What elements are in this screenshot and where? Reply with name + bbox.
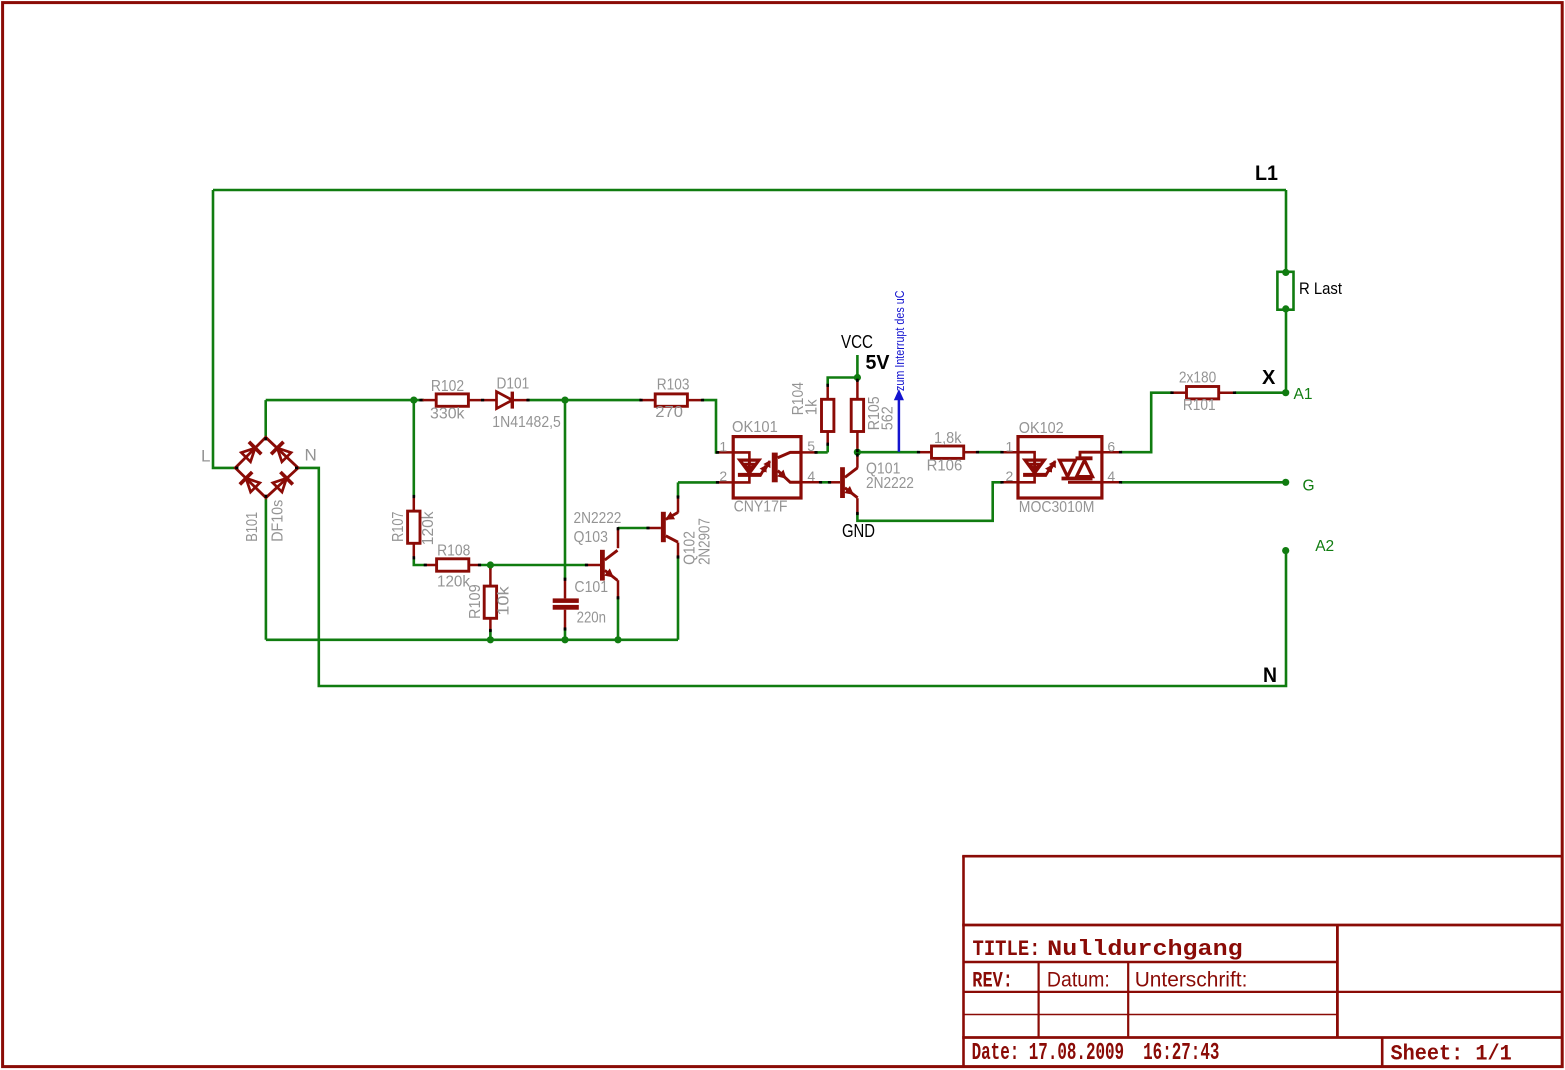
- wire R101 to node X/A1: [1235, 391, 1286, 394]
- wire R Last to node X/A1: [1285, 309, 1288, 393]
- terminal dot A1: [1282, 389, 1289, 396]
- wire R103 to OK101 pin1: [702, 400, 717, 452]
- svg-text:G: G: [1303, 478, 1315, 495]
- resistor R107: [408, 511, 420, 543]
- capacitor C101: [553, 598, 579, 609]
- svg-text:2N2222: 2N2222: [866, 475, 914, 492]
- wire R108 to Q103 base: [480, 564, 587, 567]
- svg-text:CNY17F: CNY17F: [734, 498, 788, 515]
- svg-text:Date: 17.08.2009 16:27:43: Date: 17.08.2009 16:27:43: [972, 1040, 1220, 1067]
- junction dot R Last bottom: [1282, 305, 1289, 312]
- pin stub OK101 pin4: [801, 481, 822, 484]
- pin stub R106 right: [963, 451, 979, 454]
- pin stub R105 bottom: [856, 431, 859, 451]
- pin stub C101 top: [564, 579, 567, 599]
- wire junction to R109: [489, 565, 492, 570]
- wire Q102 emitter to OK101 pin2: [678, 481, 716, 484]
- svg-text:R103: R103: [657, 377, 690, 394]
- OK101 phototransistor: [772, 452, 801, 482]
- bridge diode top-right (N to +): [271, 442, 291, 462]
- svg-text:2N2222: 2N2222: [574, 510, 622, 527]
- pin stub Q103 base: [586, 564, 601, 567]
- svg-text:1: 1: [1006, 439, 1014, 455]
- bridge rectifier B101 outline: [235, 437, 298, 497]
- transistor Q102 2N2907: [661, 512, 678, 542]
- wire Q102 emitter up: [677, 482, 680, 497]
- svg-text:270: 270: [655, 404, 683, 421]
- OK101 LED cathode wiring: [733, 475, 749, 483]
- junction node R109/bottom rail: [487, 636, 494, 643]
- pin stub OK101 pin2: [716, 481, 733, 484]
- pin stub OK102 pin2: [1001, 481, 1018, 484]
- pin stub R101 right: [1219, 391, 1236, 394]
- svg-text:5V: 5V: [866, 352, 891, 374]
- wire node to R106: [857, 451, 918, 454]
- svg-text:R106: R106: [927, 458, 963, 475]
- pin stub OK102 pin6: [1102, 451, 1122, 454]
- bridge diode bottom-left (- to L): [240, 472, 260, 492]
- svg-text:120k: 120k: [420, 511, 437, 545]
- wire junction down to C101: [564, 400, 567, 579]
- svg-text:L: L: [201, 446, 210, 465]
- terminal dot A2: [1282, 547, 1289, 554]
- svg-text:R109: R109: [467, 584, 484, 619]
- svg-text:Q103: Q103: [574, 529, 608, 546]
- pin stub R108 right: [468, 564, 480, 567]
- junction node at R102/R107: [410, 397, 417, 404]
- wire R104 bottom to pin5 net: [826, 444, 829, 452]
- svg-text:VCC: VCC: [841, 332, 873, 352]
- junction node Q103 emitter/bottom rail: [614, 636, 621, 643]
- pin stub R103 right: [687, 399, 703, 402]
- svg-text:330k: 330k: [430, 406, 465, 423]
- svg-text:N: N: [305, 446, 317, 465]
- OK102 internal triac: [1060, 452, 1102, 482]
- pin stub R103 left: [640, 399, 656, 402]
- resistor R101: [1187, 387, 1219, 399]
- svg-text:10k: 10k: [496, 586, 513, 616]
- svg-text:L1: L1: [1255, 162, 1278, 185]
- resistor R108: [437, 559, 469, 571]
- pin stub OK101 pin5: [801, 451, 817, 454]
- diode D101: [497, 392, 513, 409]
- pin stub OK101 pin1: [716, 451, 733, 454]
- wire VCC stub to R104/R105 junction: [828, 355, 858, 386]
- bridge diode bottom-right (- to N): [273, 472, 293, 492]
- wire L1 down to R Last: [1285, 190, 1288, 272]
- wire R107 to R108: [414, 558, 426, 566]
- svg-text:OK102: OK102: [1019, 420, 1064, 437]
- pin stub C101 bottom: [564, 610, 567, 630]
- pin stub Q103 emitter: [617, 580, 620, 598]
- svg-text:B101: B101: [244, 512, 261, 542]
- svg-text:A1: A1: [1294, 386, 1313, 403]
- svg-text:4: 4: [1107, 468, 1115, 484]
- pin stub OK102 pin1: [1001, 451, 1018, 454]
- wire net L1 top rail: [213, 189, 1286, 192]
- svg-text:220n: 220n: [577, 609, 606, 626]
- wire GND: Q101 emitter to OK102 pin2: [857, 482, 1002, 521]
- svg-text:1N41482,5: 1N41482,5: [492, 414, 561, 431]
- svg-text:R102: R102: [431, 378, 464, 395]
- svg-text:MOC3010M: MOC3010M: [1019, 499, 1095, 516]
- optocoupler OK101 box: [733, 437, 801, 498]
- svg-text:A2: A2: [1315, 538, 1334, 555]
- resistor R106: [932, 446, 964, 458]
- resistor R105: [851, 399, 863, 431]
- svg-text:2: 2: [719, 468, 727, 484]
- OK102 light coupling arrows: [1045, 461, 1055, 476]
- OK101 internal LED: [738, 460, 761, 475]
- junction node R108/R109: [487, 561, 494, 568]
- svg-text:6: 6: [1107, 439, 1115, 455]
- svg-text:DF10s: DF10s: [269, 500, 286, 542]
- junction dot R Last top: [1282, 269, 1289, 276]
- pin connection marks (black ticks): [235, 379, 1236, 632]
- pin stub R102 left: [421, 399, 436, 402]
- wire R109 to bottom rail: [489, 630, 492, 640]
- pin stub OK102 pin4: [1102, 481, 1122, 484]
- svg-text:R101: R101: [1183, 397, 1216, 414]
- junction node R105/Q101/R106: [854, 449, 861, 456]
- junction node C101/bottom rail: [561, 636, 568, 643]
- pin stub R105 top: [856, 380, 859, 400]
- svg-text:1: 1: [719, 439, 727, 455]
- junction node VCC: [854, 374, 861, 381]
- bridge diode top-left (L to +): [241, 442, 261, 462]
- pin stub R106 left: [918, 451, 933, 454]
- svg-text:OK101: OK101: [732, 419, 778, 436]
- resistor R104: [822, 399, 834, 431]
- svg-text:TITLE:: TITLE:: [973, 937, 1041, 962]
- svg-text:R108: R108: [437, 542, 470, 559]
- pin stub R104 top: [826, 385, 829, 400]
- wire OK101 pin5 to R104: [815, 451, 828, 454]
- transistor Q101 2N2222: [840, 467, 858, 498]
- junction node at D101/C101: [561, 397, 568, 404]
- resistor R109: [484, 586, 496, 618]
- wire Q103 collector to Q102 base: [618, 527, 649, 530]
- pin stub R109 bottom: [489, 618, 492, 631]
- svg-text:Unterschrift:: Unterschrift:: [1135, 969, 1248, 992]
- title block frame lines: [962, 856, 1562, 1067]
- svg-text:120k: 120k: [437, 573, 470, 590]
- wire D101 to R103: [527, 399, 641, 402]
- pin stub Q101 emitter: [856, 498, 859, 514]
- pin stub Q103 collector: [617, 528, 620, 548]
- svg-text:Datum:: Datum:: [1047, 969, 1110, 992]
- wire + rail to R102: [266, 399, 424, 402]
- wire bottom (-) rail: [266, 638, 678, 641]
- svg-text:1k: 1k: [804, 399, 821, 415]
- wire bridge N input / N rail to A2: [298, 468, 1286, 686]
- svg-text:N: N: [1263, 664, 1277, 687]
- transistor Q103 2N2222: [600, 550, 618, 581]
- wire R106 to OK102 pin1: [978, 451, 1002, 454]
- interrupt signal arrow (blue): [895, 390, 904, 452]
- svg-text:2N2907: 2N2907: [697, 518, 714, 565]
- svg-text:2x180: 2x180: [1179, 369, 1217, 386]
- pin stub R107 top: [413, 496, 416, 512]
- svg-text:1,8k: 1,8k: [934, 430, 962, 447]
- wire OK101 pin4 to Q101 base: [820, 481, 831, 484]
- pin stub R108 left: [425, 564, 438, 567]
- svg-text:R Last: R Last: [1299, 279, 1342, 298]
- svg-text:D101: D101: [497, 376, 530, 393]
- OK102 internal LED wiring: [1018, 452, 1035, 460]
- wire C101 to bottom rail: [564, 629, 567, 640]
- pin stub Q101 collector: [856, 454, 859, 468]
- svg-text:C101: C101: [574, 579, 608, 596]
- svg-text:2: 2: [1006, 468, 1014, 484]
- svg-text:zum Interrupt des uC: zum Interrupt des uC: [893, 291, 907, 392]
- pin stub Q102 base: [648, 527, 661, 530]
- wire OK102 pin6 up to R101: [1121, 393, 1172, 453]
- resistor R102: [436, 394, 468, 406]
- pin stub D101 cathode: [512, 399, 528, 402]
- OK102 internal LED: [1023, 460, 1046, 475]
- wire junction down to R107: [412, 400, 415, 497]
- OK102 LED cathode wiring: [1018, 475, 1035, 483]
- pin stub R109 top: [489, 568, 492, 587]
- svg-text:5: 5: [807, 438, 815, 454]
- wire OK102 pin4 to G terminal: [1121, 481, 1286, 484]
- svg-text:REV:: REV:: [972, 969, 1013, 994]
- svg-text:562: 562: [879, 406, 896, 430]
- wire L1 down to bridge L input: [213, 190, 235, 468]
- resistor R103: [655, 394, 687, 406]
- svg-text:X: X: [1262, 367, 1276, 389]
- pin stub Q101 base: [829, 481, 840, 484]
- wire Q102 collector to bottom rail: [677, 557, 680, 640]
- pin stub Q102 emitter: [677, 496, 680, 513]
- wire bridge - output down: [265, 498, 268, 640]
- pin stub R104 bottom: [826, 431, 829, 444]
- svg-text:4: 4: [807, 468, 815, 484]
- wire Q103 emitter to bottom rail: [617, 598, 620, 640]
- pin stub R102 right / D101 anode: [468, 399, 496, 402]
- resistor R Last: [1277, 272, 1293, 310]
- svg-text:Nulldurchgang: Nulldurchgang: [1047, 937, 1243, 962]
- pin stub Q102 collector: [677, 543, 680, 558]
- pin stub R101 left: [1171, 391, 1187, 394]
- OK101 internal LED wiring: [733, 452, 749, 460]
- svg-text:Sheet: 1/1: Sheet: 1/1: [1391, 1042, 1512, 1067]
- svg-text:GND: GND: [842, 521, 875, 541]
- wire bridge + output up: [264, 400, 267, 437]
- svg-text:R107: R107: [390, 512, 407, 542]
- pin stub R107 bottom: [413, 543, 416, 559]
- optocoupler OK102 box: [1018, 437, 1102, 498]
- OK101 light coupling arrows: [760, 461, 770, 476]
- terminal dot G: [1282, 479, 1289, 486]
